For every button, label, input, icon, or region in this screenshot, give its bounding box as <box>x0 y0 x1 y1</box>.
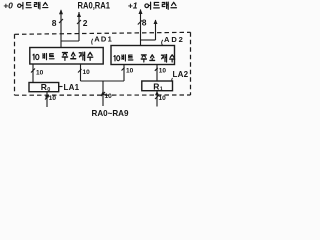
svg-text:AD2: AD2 <box>164 35 185 44</box>
svg-text:RA0~RA9: RA0~RA9 <box>92 108 129 118</box>
svg-text:10: 10 <box>105 93 113 100</box>
svg-text:10: 10 <box>159 67 167 74</box>
svg-text:10: 10 <box>83 69 91 76</box>
svg-text:1: 1 <box>160 86 163 92</box>
svg-text:8: 8 <box>142 17 147 27</box>
svg-text:10: 10 <box>49 95 57 102</box>
svg-text:LA1: LA1 <box>64 83 80 92</box>
svg-text:RA0,RA1: RA0,RA1 <box>78 1 111 11</box>
svg-text:0: 0 <box>47 87 50 93</box>
svg-text:R: R <box>41 82 47 92</box>
svg-text:8: 8 <box>52 18 57 28</box>
svg-text:R: R <box>153 81 159 91</box>
svg-text:+0: +0 <box>3 0 13 10</box>
svg-text:10: 10 <box>126 67 134 74</box>
svg-text:10: 10 <box>36 70 44 77</box>
svg-text:+1: +1 <box>128 0 138 10</box>
svg-text:AD1: AD1 <box>94 34 113 43</box>
svg-text:2: 2 <box>83 18 88 28</box>
svg-text:10: 10 <box>159 95 167 102</box>
svg-text:LA2: LA2 <box>173 70 189 79</box>
